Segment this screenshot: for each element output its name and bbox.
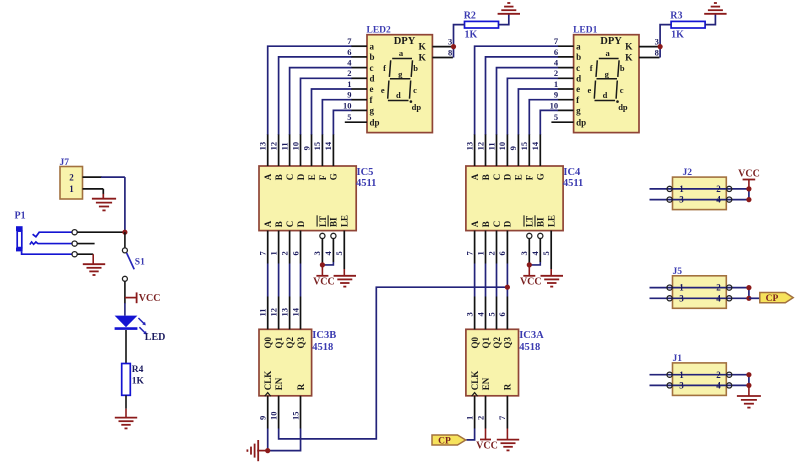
svg-text:Q3: Q3	[296, 336, 306, 348]
svg-text:4: 4	[716, 293, 721, 303]
svg-text:1: 1	[679, 283, 684, 293]
svg-text:CLK: CLK	[263, 371, 273, 391]
svg-text:4518: 4518	[312, 342, 333, 353]
svg-text:DPY: DPY	[394, 36, 416, 47]
svg-text:D: D	[296, 220, 306, 227]
svg-text:6: 6	[497, 312, 507, 316]
svg-text:Q3: Q3	[503, 336, 513, 348]
svg-text:13: 13	[464, 142, 474, 151]
svg-text:D: D	[503, 220, 513, 227]
svg-text:LED: LED	[145, 332, 166, 343]
svg-text:13: 13	[258, 142, 268, 151]
svg-text:A: A	[470, 173, 480, 180]
svg-text:2: 2	[716, 283, 721, 293]
svg-text:IC5: IC5	[357, 167, 374, 178]
svg-text:c: c	[620, 85, 624, 95]
svg-text:9: 9	[258, 416, 268, 420]
svg-text:11: 11	[279, 142, 289, 150]
svg-text:CLK: CLK	[470, 371, 480, 391]
svg-text:VCC: VCC	[520, 277, 542, 288]
svg-text:1: 1	[679, 370, 684, 380]
svg-text:4511: 4511	[563, 178, 583, 189]
svg-text:14: 14	[530, 141, 540, 150]
svg-text:14: 14	[290, 307, 300, 316]
svg-text:C: C	[492, 221, 502, 228]
svg-text:IC4: IC4	[563, 167, 581, 178]
svg-text:a: a	[576, 41, 581, 51]
svg-text:6: 6	[290, 251, 300, 255]
svg-text:P1: P1	[15, 211, 26, 222]
svg-text:10: 10	[343, 100, 352, 110]
svg-text:1: 1	[554, 79, 558, 89]
svg-text:e: e	[381, 85, 385, 95]
svg-text:2: 2	[69, 172, 74, 182]
svg-text:a: a	[605, 48, 610, 58]
svg-text:2: 2	[486, 251, 496, 255]
svg-text:Q1: Q1	[481, 336, 491, 348]
svg-text:1K: 1K	[671, 30, 684, 41]
svg-text:9: 9	[554, 90, 558, 100]
svg-text:8: 8	[448, 47, 452, 57]
svg-text:3: 3	[679, 195, 684, 205]
svg-text:A: A	[470, 220, 480, 227]
svg-text:4511: 4511	[356, 178, 376, 189]
svg-text:4: 4	[716, 195, 721, 205]
svg-text:C: C	[285, 221, 295, 228]
svg-text:Q0: Q0	[263, 336, 273, 348]
svg-text:10: 10	[550, 100, 559, 110]
svg-text:G: G	[536, 173, 546, 180]
svg-text:F: F	[318, 174, 328, 180]
svg-text:c: c	[413, 85, 417, 95]
svg-text:9: 9	[301, 146, 311, 150]
svg-text:d: d	[370, 74, 375, 84]
svg-text:b: b	[620, 63, 625, 73]
svg-text:10: 10	[497, 142, 507, 151]
svg-text:K: K	[419, 54, 427, 64]
svg-text:1: 1	[268, 251, 278, 255]
svg-text:Q2: Q2	[492, 336, 502, 348]
svg-text:1: 1	[347, 79, 351, 89]
svg-text:3: 3	[679, 293, 684, 303]
svg-text:R3: R3	[670, 11, 682, 22]
svg-text:11: 11	[258, 308, 268, 316]
svg-text:EN: EN	[274, 377, 284, 390]
svg-text:F: F	[525, 174, 535, 180]
svg-text:R: R	[296, 383, 306, 390]
svg-text:2: 2	[716, 370, 721, 380]
svg-text:1: 1	[475, 251, 485, 255]
svg-text:12: 12	[268, 308, 278, 317]
svg-text:5: 5	[541, 251, 551, 255]
svg-text:e: e	[370, 84, 374, 94]
svg-text:D: D	[296, 173, 306, 180]
svg-text:10: 10	[268, 412, 278, 421]
svg-text:g: g	[398, 69, 403, 79]
svg-text:S1: S1	[135, 257, 145, 267]
svg-text:3: 3	[679, 381, 684, 391]
svg-text:g: g	[576, 106, 581, 116]
svg-text:R4: R4	[132, 365, 144, 375]
svg-text:K: K	[625, 43, 633, 53]
svg-text:15: 15	[290, 412, 300, 421]
svg-text:15: 15	[519, 142, 529, 151]
svg-text:VCC: VCC	[313, 277, 335, 288]
svg-text:C: C	[492, 174, 502, 181]
svg-text:1: 1	[69, 184, 74, 194]
svg-text:1K: 1K	[465, 30, 478, 41]
svg-text:B: B	[274, 174, 284, 180]
svg-text:4518: 4518	[519, 342, 540, 353]
svg-text:EN: EN	[481, 377, 491, 390]
svg-text:d: d	[396, 90, 401, 100]
svg-text:1: 1	[679, 184, 684, 194]
svg-text:VCC: VCC	[139, 293, 161, 304]
svg-text:VCC: VCC	[476, 440, 498, 451]
svg-text:b: b	[413, 63, 418, 73]
svg-text:CP: CP	[438, 436, 451, 446]
svg-text:e: e	[588, 85, 592, 95]
svg-text:5: 5	[486, 312, 496, 316]
svg-text:4: 4	[716, 381, 721, 391]
svg-text:dp: dp	[412, 102, 422, 112]
svg-text:R: R	[503, 383, 513, 390]
svg-text:b: b	[370, 52, 375, 62]
svg-text:LT: LT	[318, 216, 328, 227]
svg-text:VCC: VCC	[738, 168, 760, 179]
svg-text:6: 6	[347, 47, 351, 57]
svg-text:DPY: DPY	[600, 36, 622, 47]
svg-text:LE: LE	[340, 215, 350, 227]
svg-text:c: c	[370, 63, 374, 73]
svg-text:dp: dp	[370, 117, 380, 127]
svg-text:Q0: Q0	[470, 336, 480, 348]
svg-text:g: g	[370, 106, 375, 116]
svg-text:3: 3	[464, 312, 474, 316]
svg-text:2: 2	[475, 416, 485, 420]
svg-text:1K: 1K	[132, 376, 145, 386]
svg-text:9: 9	[347, 90, 351, 100]
svg-text:3: 3	[519, 251, 529, 255]
svg-text:IC3A: IC3A	[519, 330, 544, 341]
svg-text:BI: BI	[536, 217, 546, 227]
svg-text:A: A	[263, 173, 273, 180]
svg-text:K: K	[419, 43, 427, 53]
svg-text:B: B	[481, 221, 491, 227]
svg-text:2: 2	[347, 68, 351, 78]
svg-text:3: 3	[312, 251, 322, 255]
svg-text:LT: LT	[525, 216, 535, 227]
svg-text:R2: R2	[464, 11, 476, 22]
svg-text:12: 12	[475, 142, 485, 151]
svg-text:CP: CP	[766, 294, 779, 304]
svg-text:E: E	[514, 174, 524, 180]
svg-text:2: 2	[716, 184, 721, 194]
svg-text:1: 1	[464, 416, 474, 420]
svg-text:6: 6	[497, 251, 507, 255]
svg-text:f: f	[383, 63, 386, 73]
svg-text:8: 8	[655, 47, 659, 57]
svg-text:D: D	[503, 173, 513, 180]
svg-text:d: d	[603, 90, 608, 100]
svg-text:11: 11	[486, 142, 496, 150]
svg-text:13: 13	[279, 308, 289, 317]
svg-text:g: g	[605, 69, 610, 79]
svg-text:K: K	[625, 54, 633, 64]
svg-text:14: 14	[323, 141, 333, 150]
svg-text:5: 5	[554, 112, 558, 122]
svg-text:7: 7	[554, 36, 559, 46]
svg-text:4: 4	[554, 58, 559, 68]
svg-text:IC3B: IC3B	[312, 330, 336, 341]
svg-text:B: B	[481, 174, 491, 180]
svg-text:2: 2	[279, 251, 289, 255]
svg-text:10: 10	[290, 142, 300, 151]
svg-text:5: 5	[347, 112, 351, 122]
svg-text:9: 9	[508, 146, 518, 150]
svg-text:15: 15	[312, 142, 322, 151]
svg-text:5: 5	[334, 251, 344, 255]
svg-text:c: c	[576, 63, 580, 73]
svg-text:BI: BI	[329, 217, 339, 227]
svg-text:Q2: Q2	[285, 336, 295, 348]
svg-text:2: 2	[554, 68, 558, 78]
svg-text:e: e	[576, 84, 580, 94]
svg-text:b: b	[576, 52, 581, 62]
svg-text:a: a	[370, 41, 375, 51]
svg-text:E: E	[307, 174, 317, 180]
svg-text:A: A	[263, 220, 273, 227]
svg-text:12: 12	[268, 142, 278, 151]
svg-text:d: d	[576, 74, 581, 84]
svg-text:dp: dp	[576, 117, 586, 127]
svg-text:dp: dp	[618, 102, 628, 112]
svg-text:6: 6	[554, 47, 558, 57]
svg-text:Q1: Q1	[274, 336, 284, 348]
svg-text:B: B	[274, 221, 284, 227]
svg-text:G: G	[329, 173, 339, 180]
svg-text:C: C	[285, 174, 295, 181]
svg-text:f: f	[590, 63, 593, 73]
svg-text:LE: LE	[547, 215, 557, 227]
